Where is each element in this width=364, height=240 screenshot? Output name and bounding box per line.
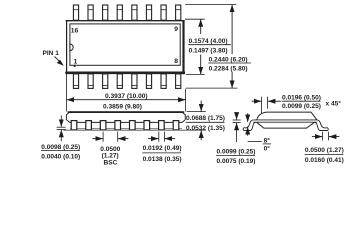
pin 10 (top row): [161, 5, 166, 20]
svg-text:8°: 8°: [264, 136, 271, 144]
pin-1 end index notch: [70, 44, 73, 51]
value label 0.0688 (1.75) / 0.0532 (1.35): [186, 115, 225, 132]
svg-text:x 45°: x 45°: [326, 99, 342, 107]
svg-text:0.0500 (1.27): 0.0500 (1.27): [305, 147, 344, 154]
value label 8deg / 0deg: [263, 136, 271, 152]
side-view lead 3: [100, 121, 106, 130]
svg-text:0.0688 (1.75): 0.0688 (1.75): [186, 115, 225, 122]
value label 0.0099 (0.25) / 0.0075 (0.19): [216, 148, 255, 165]
svg-text:BSC: BSC: [104, 159, 118, 166]
pin 4 (bottom row): [117, 74, 122, 89]
value label 0.3937 (10.00) / 0.3859 (9.80): [103, 93, 148, 110]
dimension 0.0196/0.0099 x45 chamfer: ticks and arrows: [252, 97, 281, 114]
svg-text:0.0099 (0.25): 0.0099 (0.25): [282, 103, 321, 110]
pin 1 (bottom row): [73, 74, 78, 89]
side-view molded body: [66, 112, 185, 123]
value label 0.0500 (1.27) / 0.0160 (0.41): [305, 147, 344, 164]
side-view lead 6: [144, 121, 150, 130]
pin 8 (bottom row): [176, 74, 181, 89]
dimension 0.0098/0.0040 standoff: arrows and ticks: [57, 115, 66, 141]
svg-text:0.0196 (0.50): 0.0196 (0.50): [282, 94, 321, 101]
svg-text:0.3859 (9.80): 0.3859 (9.80): [103, 103, 142, 110]
pin 2 (bottom row): [88, 74, 93, 89]
side-view lead 1: [71, 121, 77, 130]
pin 9 (top row): [176, 5, 181, 20]
svg-text:9: 9: [174, 26, 178, 33]
svg-text:16: 16: [71, 27, 79, 34]
pin 7 (bottom row): [161, 74, 166, 89]
dimension 0.3937/0.3859 body length: extension lines: [67, 74, 186, 112]
value label 0.0196 (0.50) / 0.0099 (0.25) x 45deg: [282, 94, 342, 110]
svg-text:0.0075 (0.19): 0.0075 (0.19): [217, 158, 256, 165]
svg-text:0.0098 (0.25): 0.0098 (0.25): [41, 144, 80, 151]
svg-text:PIN 1: PIN 1: [43, 50, 60, 57]
value label 0.0192 (0.49) / 0.0138 (0.35): [142, 145, 181, 163]
pin 16 (top row): [73, 5, 78, 20]
value label 0.0500 (1.27) BSC: [100, 146, 120, 167]
PIN 1 leader arrow: [55, 57, 64, 66]
pin 13 (top row): [117, 5, 122, 20]
right formed lead: [315, 120, 329, 131]
far-row lead feet line: [70, 127, 182, 129]
dimension 0.0500/0.0160 foot length: ticks and arrows: [312, 132, 339, 141]
svg-text:1: 1: [74, 59, 78, 66]
svg-text:0.1574 (4.00): 0.1574 (4.00): [189, 38, 228, 45]
pin 14 (top row): [103, 5, 108, 20]
svg-text:0.2440 (6.20): 0.2440 (6.20): [209, 56, 248, 63]
svg-text:0.0099 (0.25): 0.0099 (0.25): [217, 148, 256, 155]
dimension 0.0192/0.0138 lead width: ticks and arrows: [148, 132, 175, 142]
svg-text:8: 8: [174, 58, 178, 65]
side-view lead 8: [173, 121, 179, 130]
svg-text:0.2284 (5.80): 0.2284 (5.80): [209, 66, 248, 73]
package body (top view inner outline): [70, 24, 180, 65]
package body (top view outer outline): [65, 20, 185, 74]
value label 0.1574 (4.00) / 0.1497 (3.80): [188, 38, 231, 55]
pin 3 (bottom row): [103, 74, 108, 89]
dimension 0.0500 BSC lead pitch: ticks and arrows: [92, 132, 128, 142]
pin 6 (bottom row): [146, 74, 151, 89]
side-view lead 2: [86, 121, 92, 130]
side-view lead 4: [115, 121, 121, 130]
dimension 0.0099/0.0075 lead thickness: arrows and ticks: [233, 113, 241, 142]
side-view lead 5: [130, 121, 136, 130]
dimension 0.2440/0.2284 lead span: extension lines: [185, 5, 237, 89]
seating plane line: [64, 129, 189, 131]
left formed lead: [243, 120, 255, 131]
pin 11 (top row): [146, 5, 151, 20]
svg-text:0.0192 (0.49): 0.0192 (0.49): [143, 145, 182, 152]
side-view lead 7: [159, 121, 165, 130]
value label 0.2440 (6.20) / 0.2284 (5.80): [208, 56, 251, 72]
value label 0.0098 (0.25) / 0.0040 (0.10): [41, 144, 80, 161]
pin 5 (bottom row): [132, 74, 137, 89]
pin 15 (top row): [88, 5, 93, 20]
svg-text:0.0138 (0.35): 0.0138 (0.35): [143, 156, 182, 163]
svg-text:0.0532 (1.35): 0.0532 (1.35): [186, 125, 225, 132]
pin 1 index dot: [74, 65, 76, 67]
svg-text:0°: 0°: [264, 144, 271, 152]
pin 12 (top row): [132, 5, 137, 20]
dimension 0.0688/0.0532 package height: ext lines and arrows: [187, 101, 206, 141]
svg-text:0.3937 (10.00): 0.3937 (10.00): [105, 93, 148, 100]
end-view molded body: [257, 112, 317, 128]
svg-text:0.0040 (0.10): 0.0040 (0.10): [41, 153, 80, 160]
dimension 0.1574/0.1497 body width: extension lines: [185, 19, 205, 74]
svg-text:0.0160 (0.41): 0.0160 (0.41): [305, 157, 344, 164]
8deg/0deg leader: [248, 141, 262, 143]
lead row (edge-on) across body: [253, 120, 317, 122]
svg-text:0.1497 (3.80): 0.1497 (3.80): [189, 48, 228, 55]
seating angle arrow pair: [247, 113, 249, 136]
